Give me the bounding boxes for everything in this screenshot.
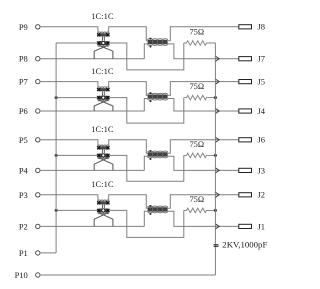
wire transformer T4 primary center tap to P1 bus [56, 209, 97, 211]
svg-text:P4: P4 [19, 165, 29, 175]
wire P4 row to transformer legs and choke [40, 169, 144, 171]
capacitor C1 2KV,1000pF [214, 244, 219, 246]
svg-text:1C:1C: 1C:1C [91, 66, 114, 76]
node center tap junction channel 2 [55, 96, 58, 99]
wire crossing chevron [215, 168, 219, 174]
wire crossing chevron [215, 192, 219, 198]
wire P1 to center-tap bus [40, 252, 56, 254]
wire P3 to transformer T4 primary top [40, 195, 98, 201]
node resistor R3 to bus junction [214, 154, 217, 157]
transformer T1 bottom leads (crossed) [99, 45, 113, 58]
svg-text:P7: P7 [19, 77, 28, 87]
common-mode choke CM3 [148, 152, 168, 156]
wire choke CM1 lower-left to P8 row [144, 44, 147, 59]
terminal J3 [239, 168, 252, 172]
svg-text:J2: J2 [258, 190, 266, 200]
wire P6 row to transformer legs and choke [40, 110, 144, 112]
terminal J7 [239, 57, 252, 61]
svg-text:J7: J7 [258, 54, 266, 64]
wire transformer T2 secondary center tap to R2 (routed under choke) [109, 98, 184, 124]
svg-text:75Ω: 75Ω [189, 195, 204, 204]
transformer T2 bottom leads (crossed) [99, 100, 113, 111]
terminal J1 [239, 224, 252, 228]
wire choke CM1 upper-right to J8 [168, 27, 239, 41]
wire P5 to transformer T3 primary top [40, 140, 98, 146]
terminal J6 [239, 138, 252, 142]
terminal J4 [239, 109, 252, 113]
terminal J5 [239, 80, 252, 84]
transformer T4 bottom leads (crossed) [99, 213, 113, 227]
wire center-tap bus (P1 common) [55, 43, 57, 253]
svg-text:1C:1C: 1C:1C [91, 124, 114, 134]
svg-text:J1: J1 [258, 221, 266, 231]
svg-text:1C:1C: 1C:1C [91, 11, 114, 21]
svg-text:P8: P8 [19, 54, 28, 64]
common-mode choke CM2 [148, 95, 168, 99]
svg-text:P1: P1 [19, 248, 28, 258]
wire P9 to transformer T1 primary top [40, 27, 98, 33]
wire crossing chevron [215, 137, 219, 143]
wire crossing chevron [215, 56, 219, 62]
svg-text:J8: J8 [258, 22, 266, 32]
wire P2 row to transformer legs and choke [40, 225, 144, 227]
wire P7 to transformer T2 primary top [40, 82, 98, 88]
svg-text:1C:1C: 1C:1C [91, 179, 114, 189]
wire choke CM4 lower-left to P2 row [144, 211, 147, 226]
svg-text:P6: P6 [19, 106, 28, 116]
wire crossing chevron [215, 224, 219, 230]
wire termination bus (75-ohm commons to C1) [214, 43, 216, 275]
svg-text:75Ω: 75Ω [189, 28, 204, 37]
wire choke CM1 lower-right to J7 [168, 44, 239, 59]
wire transformer T3 secondary center tap to R3 (routed under choke) [109, 155, 184, 181]
common-mode choke CM1 [148, 40, 168, 44]
svg-text:75Ω: 75Ω [189, 140, 204, 149]
svg-text:J3: J3 [258, 165, 266, 175]
svg-text:P10: P10 [15, 270, 28, 280]
wire transformer T2 primary center tap to P1 bus [56, 97, 97, 99]
wire P10 to capacitor C1 / termination bus [40, 274, 215, 276]
svg-text:J4: J4 [258, 106, 266, 116]
node resistor R4 to bus junction [214, 209, 217, 212]
wire transformer T1 secondary center tap to R1 (routed under choke) [109, 43, 184, 70]
svg-text:J6: J6 [258, 135, 266, 145]
node center tap junction channel 3 [55, 154, 58, 157]
svg-text:P3: P3 [19, 190, 28, 200]
wire choke CM4 lower-right to J1 [168, 211, 239, 226]
terminal J8 [239, 25, 252, 29]
wire crossing chevron [215, 108, 219, 114]
wire crossing chevron [215, 79, 219, 85]
wire choke CM3 lower-right to J3 [168, 156, 239, 170]
svg-text:P5: P5 [19, 135, 28, 145]
transformer T3 bottom leads (crossed) [99, 158, 113, 171]
wire choke CM2 lower-left to P6 row [144, 99, 147, 112]
wire transformer T4 secondary center tap to R4 (routed under choke) [109, 210, 184, 237]
wire transformer T1 primary center tap to P1 bus [56, 42, 97, 44]
wire choke CM2 upper-right to J5 [168, 82, 239, 96]
svg-text:J5: J5 [258, 77, 266, 87]
svg-text:2KV,1000pF: 2KV,1000pF [222, 240, 267, 250]
wire P8 row to transformer legs and choke [40, 58, 144, 60]
svg-text:P2: P2 [19, 221, 28, 231]
svg-text:P9: P9 [19, 22, 28, 32]
common-mode choke CM4 [148, 207, 168, 211]
svg-text:75Ω: 75Ω [189, 82, 204, 91]
node resistor R2 to bus junction [214, 96, 217, 99]
wire choke CM3 upper-right to J6 [168, 140, 239, 153]
wire choke CM2 lower-right to J4 [168, 99, 239, 112]
wire choke CM3 lower-left to P4 row [144, 156, 147, 170]
node center tap junction channel 4 [55, 209, 58, 212]
wire transformer T3 primary center tap to P1 bus [56, 154, 97, 156]
terminal J2 [239, 193, 252, 197]
wire choke CM4 upper-right to J2 [168, 195, 239, 208]
